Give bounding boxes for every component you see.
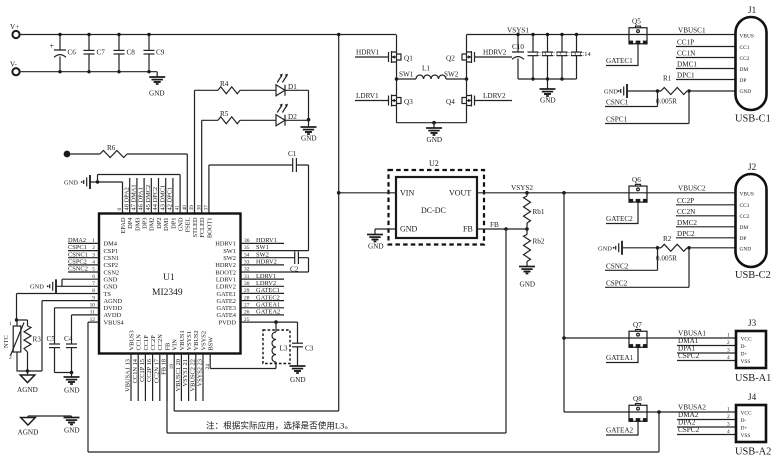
ground GND below input caps <box>149 72 165 98</box>
svg-text:GND: GND <box>427 136 443 144</box>
svg-text:VSYS1: VSYS1 <box>186 331 193 351</box>
wire STLED pin 39 to R4 <box>195 90 219 213</box>
svg-text:R2: R2 <box>663 235 672 243</box>
svg-text:DP3: DP3 <box>142 218 149 229</box>
svg-text:DMC1: DMC1 <box>677 61 697 69</box>
wire FCLED pin 38 to R5 <box>202 120 218 213</box>
svg-text:CC2N: CC2N <box>157 334 164 351</box>
svg-text:C10: C10 <box>512 43 524 51</box>
svg-text:HDRV2: HDRV2 <box>483 49 507 57</box>
svg-text:35: 35 <box>244 245 250 251</box>
svg-text:4: 4 <box>92 260 95 266</box>
wire FB net to U1 pin 18 <box>167 229 506 433</box>
node U1 pin 24 BSW <box>205 336 215 370</box>
net CSPC1 <box>605 91 689 124</box>
wire R6 to U1 FSEL pin 40 <box>127 154 187 214</box>
svg-text:GND: GND <box>301 135 317 143</box>
svg-text:+: + <box>50 42 55 51</box>
node U1 pin 31 LDRV1 <box>216 273 284 284</box>
ground GND below VSYS1 caps <box>540 79 556 105</box>
node U1 pin 13 VBUSA1 <box>125 330 136 401</box>
svg-text:42 DPC1: 42 DPC1 <box>167 187 174 211</box>
ground AGND tie <box>18 416 39 437</box>
node U1 pin 32 BOOT2 <box>215 267 249 277</box>
svg-text:AGND: AGND <box>104 298 123 305</box>
svg-text:C3: C3 <box>305 345 314 353</box>
net LDRV1 at Q3 gate <box>355 92 389 101</box>
svg-text:CC2: CC2 <box>740 56 750 62</box>
node VIN junction <box>337 191 341 195</box>
wire Q7 to J3 VCC <box>647 337 736 339</box>
svg-text:36: 36 <box>244 238 250 244</box>
node U1 pin 11 AVDD <box>90 310 122 320</box>
svg-text:19: 19 <box>169 364 175 370</box>
wire VOUT to VSYS2 rail <box>477 192 629 194</box>
svg-text:DVDD: DVDD <box>104 305 123 312</box>
svg-text:29: 29 <box>244 288 250 294</box>
svg-text:CSN1: CSN1 <box>104 255 120 262</box>
node U1 pin 9 AGND <box>92 295 122 305</box>
svg-text:VSYS2: VSYS2 <box>511 184 533 192</box>
svg-text:40: 40 <box>182 205 188 211</box>
svg-text:VBUS4: VBUS4 <box>104 319 125 326</box>
svg-text:1: 1 <box>727 407 730 413</box>
ground GND at U1 EPAD <box>64 175 180 214</box>
svg-text:47 DMA1: 47 DMA1 <box>131 184 138 210</box>
transistor Q6 <box>629 176 648 203</box>
node U1 pin 44 DPC2 <box>152 178 163 229</box>
svg-text:DP2: DP2 <box>156 218 163 229</box>
wire R1 to J1 GND <box>658 90 736 92</box>
resistor R6 <box>70 144 127 158</box>
wire VSYS2 to Q8 <box>564 411 629 413</box>
transistor Q3 <box>389 79 414 123</box>
svg-text:GATEA1: GATEA1 <box>606 354 634 362</box>
ground GND below D2 <box>301 118 317 143</box>
node test point at R6 <box>64 151 71 158</box>
wire D1 cathode to GND column <box>285 90 309 119</box>
svg-text:VBUS: VBUS <box>740 34 754 40</box>
svg-text:D-: D- <box>741 418 747 424</box>
node U1 pin 48 DPA2 <box>123 178 134 229</box>
node U1 pin 3 CSNC1 <box>68 251 119 262</box>
svg-text:GND: GND <box>30 284 44 291</box>
svg-text:2: 2 <box>9 355 12 361</box>
svg-text:MI2349: MI2349 <box>152 288 183 298</box>
svg-text:3: 3 <box>92 252 95 258</box>
wire R2 to J2 GND <box>658 247 736 249</box>
svg-text:DPC1: DPC1 <box>677 72 695 80</box>
ground GND at R2 left <box>598 241 658 255</box>
svg-text:31: 31 <box>244 274 250 280</box>
net DMA1 <box>677 337 736 346</box>
svg-text:DMC2: DMC2 <box>677 219 697 227</box>
wire VSYS1 caps bottom rail <box>518 78 577 80</box>
svg-text:C6: C6 <box>68 49 77 57</box>
svg-text:GND: GND <box>104 276 118 283</box>
svg-text:28: 28 <box>244 295 250 301</box>
svg-text:GND: GND <box>520 281 536 289</box>
net GATEA2 at Q8 gate <box>606 422 638 435</box>
svg-text:C14: C14 <box>580 51 591 58</box>
svg-text:VBUS3: VBUS3 <box>128 330 135 350</box>
svg-text:USB-C1: USB-C1 <box>735 114 771 125</box>
node V- terminal <box>10 61 20 76</box>
svg-text:GATEA1: GATEA1 <box>256 301 280 308</box>
node U1 pin 36 HDRV1 <box>215 237 284 248</box>
svg-text:0.005R: 0.005R <box>656 254 677 262</box>
node SW1 <box>395 71 414 81</box>
svg-text:DM2: DM2 <box>149 218 156 232</box>
svg-text:DP4: DP4 <box>127 217 134 229</box>
node U1 pin 6 GND <box>92 274 117 284</box>
svg-text:BOOT2: BOOT2 <box>215 269 236 276</box>
net LDRV2 at Q4 gate <box>475 92 513 101</box>
svg-text:SW2: SW2 <box>444 71 459 79</box>
svg-text:VBUSC1 20: VBUSC1 20 <box>175 359 182 392</box>
wire U1 pin 6 GND join <box>62 279 99 286</box>
node U1 pin 45 DMC2 <box>145 178 156 231</box>
svg-text:Q1: Q1 <box>404 55 413 63</box>
svg-text:AVDD: AVDD <box>104 312 122 319</box>
svg-text:U2: U2 <box>429 159 439 168</box>
svg-text:VBUS1: VBUS1 <box>179 330 186 350</box>
svg-text:CC2: CC2 <box>740 214 750 220</box>
net CSNC2 <box>605 248 658 270</box>
svg-text:CC1: CC1 <box>740 45 750 51</box>
svg-text:V+: V+ <box>10 23 19 31</box>
svg-text:R3: R3 <box>33 336 42 344</box>
wire Q6 to J2 VBUS <box>647 192 736 194</box>
node U1 pin 10 DVDD <box>90 302 123 312</box>
node junction top rail to U2 VIN <box>337 33 341 37</box>
svg-text:1: 1 <box>9 321 12 327</box>
svg-text:R1: R1 <box>663 75 672 83</box>
svg-text:FB: FB <box>164 343 171 351</box>
svg-text:CC1P: CC1P <box>677 39 694 47</box>
node U1 pin 8 TS <box>92 288 111 298</box>
node U1 pin 25 PVDD <box>219 317 250 327</box>
svg-text:DP: DP <box>740 236 747 242</box>
svg-text:DM: DM <box>740 225 749 231</box>
svg-text:TS: TS <box>104 291 112 298</box>
net GATEC1 at Q5 gate <box>606 44 638 65</box>
svg-text:CSPC2: CSPC2 <box>678 426 700 434</box>
svg-text:VSYS2: VSYS2 <box>200 331 207 351</box>
node U1 pin 17 CC2N <box>153 334 164 401</box>
resistor R1 0.005R <box>656 75 691 106</box>
node U1 pin 0 EPAD <box>117 208 127 234</box>
svg-text:GATE2: GATE2 <box>216 298 236 305</box>
svg-text:CC2P 16: CC2P 16 <box>146 359 153 382</box>
capacitor C8 <box>114 33 136 74</box>
svg-text:DPC2: DPC2 <box>677 230 695 238</box>
wire BOOT1 pin 37 to C1 <box>209 165 293 214</box>
svg-text:GND: GND <box>104 284 118 291</box>
svg-text:GND: GND <box>368 243 384 251</box>
svg-text:VIN: VIN <box>400 189 414 198</box>
wire L3 bottom to U1 pin 24 BSW <box>210 354 276 369</box>
svg-text:LDRV1: LDRV1 <box>256 273 276 280</box>
svg-text:LDRV2: LDRV2 <box>216 284 236 291</box>
wire VIN into U2 <box>339 192 396 194</box>
net CC2N <box>676 208 736 216</box>
svg-text:GND: GND <box>149 90 165 98</box>
svg-text:LDRV2: LDRV2 <box>483 92 506 100</box>
node U1 pin 2 CSPC1 <box>68 244 118 255</box>
svg-text:VBUSC2 22: VBUSC2 22 <box>189 359 196 392</box>
svg-text:DM3: DM3 <box>134 218 141 232</box>
svg-text:DP1: DP1 <box>170 218 177 229</box>
node U1 pin 1 DMA2 <box>68 237 118 248</box>
net CSNC1 <box>605 91 658 107</box>
capacitor C11 <box>528 33 547 81</box>
resistor R4 <box>218 80 240 94</box>
svg-text:VSYS1 21: VSYS1 21 <box>182 359 189 387</box>
svg-text:DM: DM <box>740 67 749 73</box>
svg-text:GND: GND <box>400 225 418 234</box>
svg-text:CSP2: CSP2 <box>104 262 119 269</box>
wire VSYS1 rail <box>467 34 630 36</box>
svg-text:39: 39 <box>189 205 195 211</box>
node VSYS2 distribution junction <box>562 191 566 195</box>
svg-text:CSNC2: CSNC2 <box>68 266 88 273</box>
svg-text:SW1: SW1 <box>399 71 414 79</box>
inductor L3 optional <box>263 320 290 368</box>
svg-text:BOOT1: BOOT1 <box>206 218 213 239</box>
svg-text:GND: GND <box>604 89 618 96</box>
svg-text:4: 4 <box>727 355 730 361</box>
svg-text:GND: GND <box>740 89 752 95</box>
svg-text:L1: L1 <box>422 65 430 73</box>
node U1 pin 43 DMC1 <box>159 178 170 231</box>
svg-text:LDRV1: LDRV1 <box>216 276 236 283</box>
ground GND at R1 left <box>604 84 658 98</box>
svg-text:43 DMC1: 43 DMC1 <box>159 185 166 211</box>
svg-text:HDRV2: HDRV2 <box>256 259 277 266</box>
svg-text:EPAD: EPAD <box>120 217 127 233</box>
net HDRV2 at Q2 gate <box>475 49 513 58</box>
svg-text:1: 1 <box>92 238 95 244</box>
wire C1 to SW1 pin 35 <box>241 165 309 251</box>
net DMC1 <box>676 61 736 69</box>
svg-text:CSNC2: CSNC2 <box>606 262 629 270</box>
svg-text:FSEL: FSEL <box>185 217 192 232</box>
svg-text:VBUS: VBUS <box>740 191 754 197</box>
svg-text:USB-C2: USB-C2 <box>735 270 771 281</box>
wire U1 pin 8 TS to NTC <box>17 294 100 321</box>
svg-text:45 DMC2: 45 DMC2 <box>145 185 152 211</box>
ground GND tie <box>64 416 80 435</box>
svg-text:HDRV1: HDRV1 <box>356 49 380 57</box>
node U1 pin 20 VBUSC1 <box>175 330 186 401</box>
svg-text:R4: R4 <box>220 80 229 88</box>
node FB junction <box>504 227 508 231</box>
net DPA2 <box>677 419 736 428</box>
svg-text:Q6: Q6 <box>632 176 641 184</box>
node VBUSA2 junction <box>657 410 661 414</box>
wire C2 to BOOT2 pin 32 <box>241 258 309 272</box>
svg-text:GATEA2: GATEA2 <box>256 309 280 316</box>
svg-text:48 DPA2: 48 DPA2 <box>123 187 130 210</box>
node U1 pin 21 VSYS1 <box>182 331 193 401</box>
wire U1 pin 25 PVDD to L3 C3 <box>241 321 298 323</box>
net CC1N <box>676 50 736 58</box>
node U1 pin 29 GATEC1 <box>216 287 284 298</box>
svg-text:CSP1: CSP1 <box>104 248 119 255</box>
node U1 pin 38 FCLED <box>196 205 206 238</box>
svg-text:4: 4 <box>727 429 730 435</box>
transistor Q5 <box>629 18 648 45</box>
wire bridge source rail <box>397 122 467 124</box>
svg-text:C5: C5 <box>47 335 56 343</box>
wire SW2 pin 34 to C2 <box>241 257 295 259</box>
node U1 pin 23 VSYS2 <box>197 331 208 401</box>
resistor R5 <box>218 110 240 124</box>
node U1 pin 5 CSNC2 <box>68 266 119 277</box>
transistor Q8 <box>629 395 648 422</box>
svg-text:CC1N 14: CC1N 14 <box>132 358 139 383</box>
node Q7 feed junction <box>562 336 566 340</box>
svg-text:Rb2: Rb2 <box>533 238 545 246</box>
ground GND below Rb2 <box>519 262 535 289</box>
svg-text:CC1: CC1 <box>740 203 750 209</box>
capacitor C9 <box>144 33 165 74</box>
svg-text:2: 2 <box>727 340 730 346</box>
svg-text:0.005R: 0.005R <box>656 98 677 106</box>
transistor Q4 <box>446 79 475 123</box>
node U1 pin 18 FB <box>161 343 172 401</box>
svg-text:VCC: VCC <box>741 411 752 417</box>
wire VSYS2 to Q7 <box>564 337 629 339</box>
svg-text:0: 0 <box>117 208 123 211</box>
transistor Q7 <box>629 321 648 348</box>
svg-text:CSPC2: CSPC2 <box>606 279 628 287</box>
svg-text:HDRV2: HDRV2 <box>215 262 236 269</box>
svg-text:C4: C4 <box>64 335 73 343</box>
svg-text:AGND: AGND <box>17 386 38 394</box>
net HDRV1 at Q1 gate <box>355 49 389 58</box>
wire U1 pin 9 AGND <box>42 301 99 371</box>
svg-text:DM4: DM4 <box>104 241 118 248</box>
resistor R2 0.005R <box>656 235 691 262</box>
svg-text:33: 33 <box>244 260 250 266</box>
wire R4 to D1 <box>240 89 276 91</box>
svg-text:HDRV1: HDRV1 <box>256 237 277 244</box>
svg-text:GATEC2: GATEC2 <box>606 215 633 223</box>
node U1 pin 40 FSEL <box>182 205 192 233</box>
svg-text:GATEC1: GATEC1 <box>256 287 280 294</box>
transistor Q1 <box>389 35 414 80</box>
svg-text:D+: D+ <box>741 426 748 432</box>
capacitor C12 <box>542 33 562 81</box>
wire D2 cathode junction <box>285 119 309 121</box>
svg-text:AGND: AGND <box>18 429 39 437</box>
net CSPC2 to J3 VSS <box>677 352 736 361</box>
svg-text:GATE4: GATE4 <box>216 312 236 319</box>
svg-text:LDRV2: LDRV2 <box>256 280 276 287</box>
svg-text:Rb1: Rb1 <box>533 208 545 216</box>
svg-text:CC2P: CC2P <box>677 197 694 205</box>
svg-text:L3: L3 <box>280 345 288 353</box>
connector J1 USB-C1 <box>735 5 771 125</box>
wire FB from U2 <box>477 228 527 230</box>
svg-text:C9: C9 <box>156 49 165 57</box>
svg-text:J3: J3 <box>748 318 757 328</box>
svg-text:DP: DP <box>740 78 747 84</box>
node U1 pin 28 GATEC2 <box>216 294 284 305</box>
svg-text:J4: J4 <box>748 392 757 402</box>
svg-text:Q7: Q7 <box>633 321 642 329</box>
svg-text:30: 30 <box>244 281 250 287</box>
op-amp U1 MI2349 charger IC <box>99 214 241 354</box>
svg-text:注：根据实际应用，选择是否使用L3。: 注：根据实际应用，选择是否使用L3。 <box>206 420 353 431</box>
net DPA1 <box>677 345 736 354</box>
node U1 pin 35 SW1 <box>223 244 269 255</box>
node U1 pin 37 BOOT1 <box>204 205 214 238</box>
svg-text:41: 41 <box>175 205 181 211</box>
net CSPC2 to J4 VSS <box>677 426 736 435</box>
net GATEC2 at Q6 gate <box>606 203 638 224</box>
node U1 pin 27 GATEA1 <box>216 301 284 312</box>
capacitor C2 <box>290 252 299 274</box>
capacitor C13 <box>557 33 577 81</box>
wire L1 to SW2 <box>446 78 467 80</box>
wire VSYS2 vertical rail <box>563 193 565 412</box>
svg-text:USB-A2: USB-A2 <box>735 447 771 456</box>
wire Q5 to J1 VBUS <box>647 34 736 36</box>
LED D1 <box>276 74 297 96</box>
svg-text:VIN: VIN <box>172 339 179 351</box>
node U1 pin 47 DMA1 <box>131 178 142 231</box>
svg-text:VCC: VCC <box>741 337 752 343</box>
net CC1P <box>676 39 736 47</box>
node U1 pin 16 CC2P <box>146 335 157 401</box>
capacitor C3 <box>292 322 314 366</box>
node U1 pin 15 CC1P <box>139 335 150 401</box>
svg-text:FB: FB <box>490 221 499 229</box>
node U1 pin 46 DPA1 <box>138 178 149 229</box>
svg-text:GATEC1: GATEC1 <box>606 57 633 65</box>
capacitor C4 <box>64 315 99 373</box>
svg-text:D-: D- <box>741 344 747 350</box>
svg-text:5: 5 <box>92 267 95 273</box>
svg-text:26: 26 <box>244 310 250 316</box>
svg-text:C1: C1 <box>288 150 297 158</box>
svg-text:27: 27 <box>244 302 250 308</box>
svg-text:VSS: VSS <box>741 433 751 439</box>
svg-text:3: 3 <box>727 348 730 354</box>
wire Q8 to J4 VCC <box>647 411 736 413</box>
wire V- bottom rail <box>20 71 158 73</box>
svg-text:STLED: STLED <box>192 217 199 237</box>
net DMC2 <box>676 219 736 227</box>
svg-text:R6: R6 <box>107 144 116 152</box>
ground GND below bridge <box>426 121 442 144</box>
node U1 pin 33 HDRV2 <box>215 259 284 270</box>
capacitor C1 <box>288 150 297 172</box>
node U1 pin 41 GND <box>175 205 185 232</box>
resistor Rb1 <box>524 191 545 223</box>
net GATEA1 at Q7 gate <box>606 348 638 363</box>
wire SW1 to L1 <box>397 78 417 80</box>
node U1 pin 34 SW2 <box>223 251 269 262</box>
svg-text:GATE1: GATE1 <box>216 291 236 298</box>
net CSPC2 <box>605 248 689 287</box>
wire VIN vertical rail <box>174 35 339 412</box>
svg-text:CC2P: CC2P <box>150 335 157 351</box>
svg-text:Q5: Q5 <box>632 18 641 26</box>
